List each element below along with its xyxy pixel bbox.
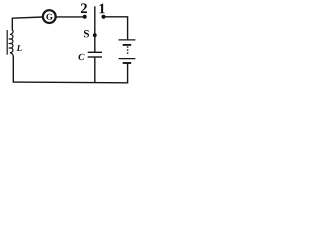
galvanometer label G bbox=[46, 14, 52, 20]
node contact 2 dot bbox=[83, 15, 87, 19]
wire: bottom rail bbox=[13, 81, 129, 84]
node contact 1 dot bbox=[102, 15, 106, 19]
battery BT1 long plate bottom cell bbox=[119, 58, 136, 60]
wire: switch pole down to capacitor bbox=[94, 37, 96, 52]
wire: contact 1 to battery top bbox=[105, 17, 128, 40]
galvanometer U1 ring bbox=[43, 10, 56, 23]
battery BT1 dotted middle cells bbox=[127, 46, 129, 54]
wire: top-left horizontal from corner to galvanometer bbox=[12, 17, 43, 18]
inductor L1 iron core bar bbox=[6, 30, 8, 55]
switch S blade bbox=[94, 6, 96, 35]
label C bbox=[78, 54, 84, 60]
battery BT1 short plate bottom cell bbox=[123, 62, 132, 64]
label 2 bbox=[81, 3, 87, 13]
battery BT1 short plate top cell bbox=[123, 44, 132, 46]
switch S pole dot bbox=[93, 33, 97, 37]
wire: coil bottom lead to bottom rail bbox=[12, 56, 14, 82]
inductor L1 coil bbox=[10, 30, 13, 56]
battery BT1 long plate top cell bbox=[119, 39, 136, 41]
wire: capacitor bottom lead to bottom rail bbox=[94, 58, 96, 83]
label 1 bbox=[99, 4, 104, 14]
wire: galvanometer to contact 2 bbox=[56, 16, 84, 18]
capacitor C1 bottom plate bbox=[88, 56, 102, 58]
label S bbox=[84, 30, 89, 37]
wire: battery bottom lead to bottom rail bbox=[127, 64, 129, 83]
wire: left vertical from top corner down to coil bbox=[11, 18, 13, 31]
capacitor C1 top plate bbox=[88, 51, 102, 53]
label L bbox=[17, 45, 22, 51]
